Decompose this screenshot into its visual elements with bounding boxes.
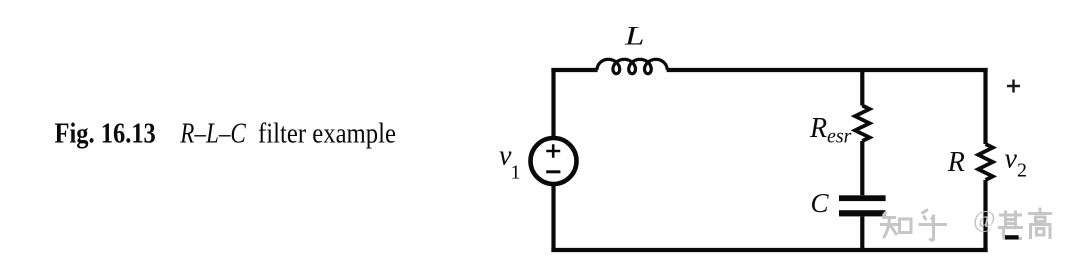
svg-text:filter example: filter example bbox=[258, 119, 396, 150]
svg-text:C: C bbox=[811, 188, 830, 218]
output plus polarity mark bbox=[1007, 80, 1020, 93]
svg-text:L: L bbox=[624, 21, 645, 50]
svg-text:@: @ bbox=[973, 206, 996, 233]
output minus polarity mark bbox=[1005, 235, 1019, 239]
wire bottom rail bbox=[551, 248, 987, 252]
wire right vertical top (top rail to R) bbox=[983, 68, 987, 144]
wire middle branch below C bbox=[860, 216, 864, 252]
v1 plus polarity mark bbox=[546, 144, 560, 157]
wire top rail right segment bbox=[667, 68, 988, 72]
svg-text:1: 1 bbox=[511, 162, 521, 184]
svg-text:Fig. 16.13: Fig. 16.13 bbox=[55, 119, 156, 150]
wire left vertical bottom half (v1 to bottom rail) bbox=[551, 184, 555, 252]
wire left vertical top half (top rail to v1) bbox=[551, 68, 555, 138]
resistor Resr zigzag bbox=[855, 106, 870, 142]
watermark glyph shen bbox=[998, 211, 1023, 239]
inductor L coil bbox=[597, 59, 667, 73]
voltage source v1 circle bbox=[531, 138, 577, 184]
v1 minus polarity mark bbox=[546, 170, 560, 173]
wire middle branch top bbox=[860, 68, 864, 106]
wire right vertical bottom (R to bottom rail) bbox=[983, 180, 987, 252]
svg-text:R: R bbox=[809, 113, 827, 144]
svg-text:R–L–C: R–L–C bbox=[179, 119, 246, 150]
svg-text:esr: esr bbox=[827, 125, 852, 147]
wire top rail left segment bbox=[551, 68, 597, 72]
watermark glyph zhi bbox=[880, 212, 911, 238]
resistor R zigzag bbox=[978, 144, 993, 180]
svg-text:R: R bbox=[947, 147, 965, 178]
watermark glyph gao bbox=[1028, 208, 1052, 240]
watermark glyph hu bbox=[919, 210, 948, 241]
svg-text:v: v bbox=[1005, 144, 1018, 175]
svg-text:2: 2 bbox=[1017, 160, 1027, 182]
capacitor C bottom plate bbox=[839, 210, 886, 216]
wire middle branch between Resr and C bbox=[860, 141, 864, 195]
capacitor C top plate bbox=[839, 195, 886, 201]
